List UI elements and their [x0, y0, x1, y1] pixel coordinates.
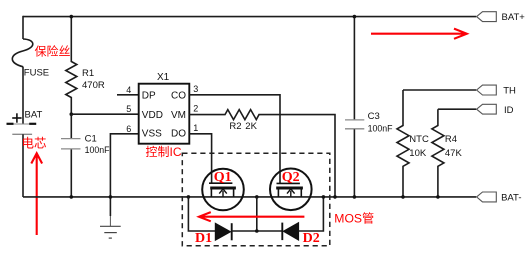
svg-text:100nF: 100nF [85, 145, 111, 155]
resistor R4 47K [432, 109, 463, 197]
connector TH [477, 85, 516, 97]
wire ID [438, 108, 476, 110]
svg-text:D1: D1 [195, 231, 212, 246]
junction dot mid diode line [255, 229, 259, 233]
svg-text:控制IC: 控制IC [146, 145, 182, 159]
wire DO pin1 to Q1 gate [189, 134, 211, 183]
junction dot R1 top bus [70, 15, 74, 19]
wire CO pin3 to Q2 gate [189, 95, 280, 184]
svg-text:4: 4 [126, 85, 131, 95]
dashed box MOS area [182, 153, 329, 246]
wire TH [403, 89, 476, 91]
battery BAT [7, 110, 43, 197]
wire diode branch right vertical [299, 197, 324, 231]
resistor NTC 10K thermistor [397, 90, 429, 197]
pin number 2 [193, 104, 198, 114]
label Q1 [214, 170, 232, 185]
svg-text:MOS管: MOS管 [334, 210, 374, 225]
svg-text:D2: D2 [303, 231, 320, 246]
op-amp U1: control IC X1 body [139, 72, 190, 144]
svg-text:BAT+: BAT+ [502, 12, 526, 23]
svg-text:2K: 2K [245, 121, 257, 132]
connector BAT- [477, 192, 522, 204]
resistor R1 470R [66, 17, 105, 115]
svg-text:10K: 10K [409, 148, 427, 159]
label 保险丝 (fuse red label) [35, 44, 71, 59]
svg-text:TH: TH [503, 86, 516, 97]
svg-text:6: 6 [126, 124, 131, 134]
pin number 5 [126, 104, 131, 114]
svg-text:C3: C3 [368, 111, 380, 122]
svg-text:BAT-: BAT- [501, 193, 521, 204]
svg-text:BAT: BAT [25, 110, 43, 121]
wire VDD pin5 [71, 113, 138, 115]
svg-text:DP: DP [142, 90, 156, 101]
junction dot C3 top bus [353, 15, 357, 19]
svg-text:47K: 47K [445, 148, 463, 159]
junction dot VM bottom bus [333, 195, 337, 199]
pin number 6 [126, 124, 131, 134]
red arrow left (discharge current in MOS box) [199, 212, 304, 221]
junction dot R1/C1/VDD [70, 112, 74, 116]
svg-text:5: 5 [126, 104, 131, 114]
wire left vertical from top bus to fuse [22, 16, 24, 39]
svg-text:VM: VM [171, 110, 186, 121]
red arrow right (current to BAT+) [371, 29, 467, 39]
svg-text:电芯: 电芯 [22, 137, 47, 151]
wire fuse to battery [22, 67, 24, 124]
wire diode branch left vertical [188, 197, 215, 231]
svg-text:470R: 470R [82, 80, 105, 91]
svg-text:R2: R2 [229, 121, 241, 132]
svg-text:VDD: VDD [142, 110, 163, 121]
junction dot C1 bottom bus [70, 195, 74, 199]
svg-text:ID: ID [504, 105, 514, 116]
transistor Q1 MOSFET [202, 169, 244, 211]
ground [100, 226, 121, 238]
svg-text:FUSE: FUSE [24, 68, 49, 79]
svg-text:100nF: 100nF [368, 124, 394, 134]
svg-text:1: 1 [193, 123, 198, 133]
label 电芯 (battery cell red label) [22, 137, 47, 151]
connector BAT+ [477, 12, 526, 23]
junction dot diode branch left [187, 195, 191, 199]
svg-text:VSS: VSS [142, 129, 162, 140]
label MOS管 (MOSFET red label) [334, 210, 374, 225]
resistor R2 2K on VM wire [189, 110, 335, 197]
label D2 [303, 231, 320, 246]
capacitor C1 100nF [61, 114, 110, 197]
red arrow up (charge current at battery) [31, 153, 42, 235]
svg-text:C1: C1 [85, 133, 97, 144]
wire between D1 and D2 [232, 230, 283, 232]
label D1 [195, 231, 212, 246]
fuse FUSE [12, 39, 49, 79]
svg-text:NTC: NTC [409, 134, 429, 145]
junction dot mid bus [255, 195, 259, 199]
junction dot diode branch right [322, 195, 326, 199]
capacitor C3 100nF [345, 17, 393, 197]
svg-text:3: 3 [193, 84, 198, 94]
wire VSS pin6 to ground [110, 134, 138, 227]
junction dot NTC bottom bus [401, 195, 405, 199]
label Q2 [282, 170, 300, 185]
svg-text:保险丝: 保险丝 [35, 44, 71, 59]
svg-text:X1: X1 [157, 72, 170, 83]
pin number 4 [126, 85, 131, 95]
wire bottom bus BAT- [23, 196, 476, 198]
connector ID [477, 104, 514, 116]
svg-text:R1: R1 [82, 68, 94, 79]
diode D2 [282, 223, 298, 241]
junction dot VSS bottom bus [109, 195, 113, 199]
wire mid vertical bus to diode line [256, 197, 258, 231]
wire DP pin4 stub [117, 94, 139, 96]
transistor Q2 MOSFET [270, 169, 312, 211]
wire top bus BAT+ [23, 16, 476, 18]
svg-text:Q1: Q1 [214, 170, 232, 185]
label 控制IC (control IC red label) [146, 145, 182, 159]
svg-text:R4: R4 [445, 134, 457, 145]
pin number 1 [193, 123, 198, 133]
junction dot R4 bottom bus [436, 195, 440, 199]
diode D1 [215, 223, 231, 240]
pin number 3 [193, 84, 198, 94]
svg-text:DO: DO [171, 129, 186, 140]
junction dot C3 bottom bus [353, 195, 357, 199]
svg-text:Q2: Q2 [282, 170, 300, 185]
svg-text:2: 2 [193, 104, 198, 114]
svg-text:CO: CO [171, 90, 186, 101]
